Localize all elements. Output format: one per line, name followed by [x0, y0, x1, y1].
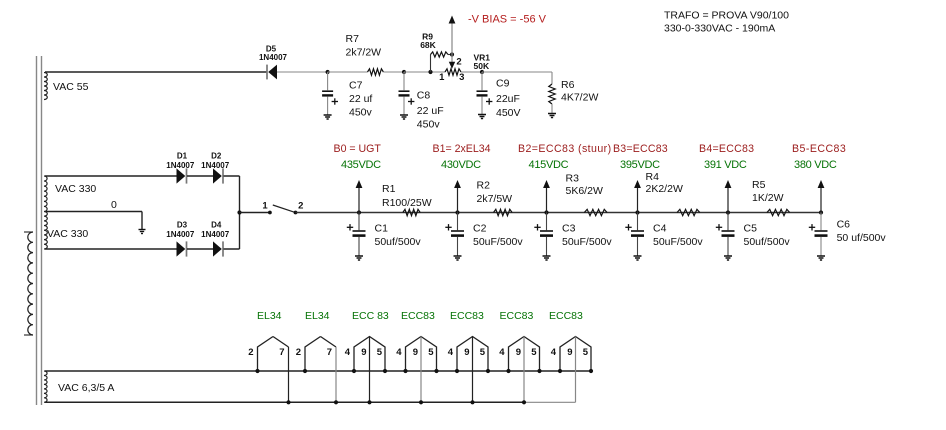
label R5 — [752, 179, 784, 204]
resistor R3 — [584, 209, 607, 215]
capacitor C1 — [347, 213, 366, 257]
label 1N4007 (D5) — [259, 53, 288, 62]
pin 2 label (VR1) — [456, 57, 461, 68]
label ECC83 (V6) — [500, 310, 534, 322]
svg-text:50uF/500v: 50uF/500v — [473, 236, 523, 248]
svg-text:R6: R6 — [561, 79, 575, 91]
diode D5 — [267, 65, 277, 80]
svg-text:50uF/500v: 50uF/500v — [562, 236, 612, 248]
label B1 (red) — [433, 143, 491, 155]
svg-text:C4: C4 — [653, 223, 667, 235]
svg-text:4: 4 — [551, 347, 557, 358]
svg-text:C7: C7 — [349, 80, 363, 92]
svg-text:50uF/500v: 50uF/500v — [653, 236, 703, 248]
label -V BIAS = -56 V — [468, 14, 547, 26]
capacitor C5 — [716, 213, 735, 257]
winding VAC 55 — [44, 73, 47, 100]
tube heater V4 ECC83 — [403, 337, 438, 405]
label C5 values — [744, 223, 791, 249]
label D4 — [211, 221, 222, 230]
svg-text:1K/2W: 1K/2W — [752, 192, 784, 204]
potentiometer VR1 body — [445, 69, 461, 75]
svg-text:2: 2 — [248, 347, 253, 358]
svg-text:D3: D3 — [177, 221, 188, 230]
wire D4 to bus — [224, 248, 240, 250]
svg-text:5: 5 — [428, 347, 434, 358]
svg-text:9: 9 — [361, 347, 366, 358]
svg-text:1: 1 — [439, 72, 445, 83]
svg-text:415VDC: 415VDC — [529, 159, 569, 171]
label B3 (red) — [613, 143, 668, 155]
label VAC 6,3/5 A — [58, 382, 114, 394]
note TRAFO — [664, 10, 789, 35]
label B5 voltage (green) — [794, 159, 837, 171]
svg-text:1N4007: 1N4007 — [201, 161, 230, 170]
svg-text:9: 9 — [516, 347, 521, 358]
svg-text:380 VDC: 380 VDC — [794, 159, 837, 171]
wire C7 to C8 — [328, 71, 368, 73]
resistor R4 — [677, 209, 700, 215]
tube heater V7 ECC83 — [558, 337, 593, 403]
svg-text:B2=ECC83 (stuur): B2=ECC83 (stuur) — [518, 143, 612, 155]
svg-text:450v: 450v — [349, 107, 373, 119]
svg-text:9: 9 — [413, 347, 418, 358]
svg-text:2: 2 — [296, 347, 301, 358]
svg-text:EL34: EL34 — [305, 310, 330, 322]
pin 4 label (V3) — [345, 347, 351, 358]
label R6 — [561, 79, 598, 104]
diode D3 — [177, 241, 187, 256]
transformer core — [37, 56, 42, 405]
wire D2 to bus — [224, 175, 240, 177]
wire bus to switch — [240, 212, 270, 214]
label ECC 83 (V3) — [352, 310, 389, 322]
label C1 values — [375, 223, 422, 249]
svg-text:5: 5 — [583, 347, 589, 358]
svg-text:R3: R3 — [566, 173, 580, 185]
svg-text:R7: R7 — [346, 33, 360, 45]
label C9 values — [496, 78, 521, 119]
label B5 (red) — [792, 143, 846, 155]
svg-text:1N4007: 1N4007 — [201, 230, 230, 239]
svg-text:330-0-330VAC - 190mA: 330-0-330VAC - 190mA — [664, 23, 775, 35]
label R2 — [477, 179, 513, 205]
node C9 junction — [480, 70, 484, 74]
svg-text:5K6/2W: 5K6/2W — [566, 185, 603, 197]
pin 5 label (V7) — [583, 347, 589, 358]
svg-text:50 uf/500v: 50 uf/500v — [837, 232, 887, 244]
svg-text:D1: D1 — [177, 152, 188, 161]
svg-text:1: 1 — [262, 201, 268, 212]
label 1N4007 (D1) — [166, 161, 195, 170]
svg-text:VAC 330: VAC 330 — [55, 183, 96, 195]
wire R7 to C8 node — [383, 71, 404, 73]
label 1N4007 (D4) — [201, 230, 230, 239]
svg-text:R100/25W: R100/25W — [382, 197, 432, 209]
svg-text:2k7/2W: 2k7/2W — [346, 47, 382, 59]
svg-text:ECC83: ECC83 — [549, 310, 583, 322]
node B4 — [726, 210, 730, 214]
pin 3 label (VR1) — [459, 72, 464, 83]
svg-text:-V BIAS = -56 V: -V BIAS = -56 V — [468, 14, 547, 26]
label 0 (center tap) — [111, 199, 117, 211]
svg-text:4: 4 — [396, 347, 402, 358]
capacitor C3 — [534, 213, 553, 257]
svg-text:C3: C3 — [562, 223, 576, 235]
wire heater bottom rail — [45, 401, 524, 403]
capacitor C8 — [399, 72, 415, 115]
node R9 riser junction — [428, 70, 432, 74]
tube heater V6 ECC83 — [506, 337, 541, 405]
pin 2 label (switch) — [298, 201, 303, 212]
resistor R1 — [403, 209, 420, 215]
svg-text:50K: 50K — [474, 61, 490, 71]
pin 4 label (V4) — [396, 347, 402, 358]
switch S1 — [268, 205, 297, 214]
wire VR1 to C9 node — [461, 71, 482, 73]
svg-text:450v: 450v — [417, 119, 441, 131]
resistor R5 — [767, 209, 790, 215]
node B1 — [455, 210, 459, 214]
ground (C5) — [724, 256, 732, 260]
node B3 — [635, 210, 639, 214]
svg-text:R5: R5 — [752, 179, 766, 191]
label 1N4007 (D3) — [166, 230, 195, 239]
svg-text:22 uF: 22 uF — [417, 105, 444, 117]
ground (C3) — [543, 256, 551, 260]
svg-text:5: 5 — [531, 347, 537, 358]
svg-text:0: 0 — [111, 199, 117, 211]
node B2 — [544, 210, 548, 214]
label C3 values — [562, 223, 612, 249]
svg-text:2K2/2W: 2K2/2W — [646, 183, 683, 195]
label EL34 (V2) — [305, 310, 330, 322]
winding VAC 330 upper — [44, 176, 47, 211]
label VAC 55 — [53, 81, 89, 93]
svg-text:1N4007: 1N4007 — [259, 53, 288, 62]
svg-text:VAC 330: VAC 330 — [47, 228, 88, 240]
svg-text:B0 = UGT: B0 = UGT — [334, 143, 382, 155]
label ECC83 (V7) — [549, 310, 583, 322]
arrow B3 output — [634, 180, 641, 213]
wire C8 to R9 riser node — [404, 71, 445, 73]
winding VAC 6,3/5 A — [44, 371, 47, 402]
pin 5 label (V4) — [428, 347, 434, 358]
svg-text:C5: C5 — [744, 223, 758, 235]
arrow B1 output — [454, 180, 461, 213]
pin 9 label (V6) — [516, 347, 521, 358]
wire heater top rail — [45, 370, 591, 372]
svg-text:4K7/2W: 4K7/2W — [561, 92, 598, 104]
svg-text:D4: D4 — [211, 221, 222, 230]
arrow B5 output — [818, 180, 825, 213]
wire D1 to D2 — [187, 175, 213, 177]
svg-text:ECC83: ECC83 — [401, 310, 435, 322]
svg-text:C8: C8 — [417, 89, 431, 101]
diode D1 — [177, 168, 187, 183]
svg-text:TRAFO = PROVA V90/100: TRAFO = PROVA V90/100 — [664, 10, 789, 22]
tube heater V5 ECC83 — [455, 337, 490, 405]
wire VAC55 to D5 — [45, 71, 267, 73]
tube heater V3 ECC83 — [352, 337, 387, 405]
svg-text:7: 7 — [327, 347, 332, 358]
pin 5 label (V5) — [480, 347, 486, 358]
svg-text:VAC 55: VAC 55 — [53, 81, 89, 93]
arrow B2 output — [543, 180, 550, 213]
pin 7 label (V1) — [279, 347, 284, 358]
svg-text:435VDC: 435VDC — [341, 159, 381, 171]
svg-text:C9: C9 — [496, 78, 510, 90]
svg-text:ECC83: ECC83 — [450, 310, 484, 322]
pin 9 label (V3) — [361, 347, 366, 358]
ground (C4) — [634, 256, 642, 260]
label EL34 (V1) — [257, 310, 282, 322]
svg-text:2: 2 — [456, 57, 461, 68]
resistor R2 — [494, 209, 513, 215]
node B5 — [819, 210, 823, 214]
label D5 — [266, 45, 277, 54]
ground (C7) — [324, 115, 332, 119]
label C2 values — [473, 223, 523, 249]
svg-text:R1: R1 — [382, 183, 396, 195]
capacitor C7 — [322, 72, 338, 115]
svg-text:C2: C2 — [473, 223, 487, 235]
label B2 voltage (green) — [529, 159, 569, 171]
ground (C6) — [817, 256, 825, 260]
pin 5 label (V6) — [531, 347, 537, 358]
transformer primary winding — [24, 232, 33, 335]
label R4 — [646, 171, 683, 195]
svg-text:450V: 450V — [496, 107, 521, 119]
pin 9 label (V5) — [464, 347, 469, 358]
wire VAC330 lower to bridge — [45, 248, 177, 250]
ground (C2) — [454, 256, 462, 260]
pin 2 label (V1) — [248, 347, 253, 358]
label C4 values — [653, 223, 703, 249]
svg-text:391 VDC: 391 VDC — [704, 159, 747, 171]
svg-text:EL34: EL34 — [257, 310, 282, 322]
arrow B0 output — [356, 180, 363, 213]
label D1 — [177, 152, 188, 161]
ground (C9) — [478, 115, 486, 119]
resistor R6 — [549, 84, 555, 114]
svg-text:R4: R4 — [646, 171, 660, 183]
svg-text:4: 4 — [448, 347, 454, 358]
svg-text:430VDC: 430VDC — [441, 159, 481, 171]
label R3 — [566, 173, 603, 198]
svg-text:ECC 83: ECC 83 — [352, 310, 389, 322]
svg-text:395VDC: 395VDC — [620, 159, 660, 171]
wire B+ rail — [296, 212, 822, 214]
pin 4 label (V7) — [551, 347, 557, 358]
svg-text:2: 2 — [298, 201, 303, 212]
label B2 (red) — [518, 143, 612, 155]
wire VAC330 upper to bridge — [45, 175, 177, 177]
wire D3 to D4 — [187, 248, 213, 250]
label R1 — [382, 183, 432, 209]
label C8 values — [417, 89, 444, 130]
tube heater V1 EL34 — [255, 337, 290, 405]
svg-text:ECC83: ECC83 — [500, 310, 534, 322]
pin 9 label (V4) — [413, 347, 418, 358]
svg-text:B4=ECC83: B4=ECC83 — [699, 143, 754, 155]
node bus junction — [237, 210, 241, 214]
wire -V BIAS wiper — [451, 22, 453, 62]
wire center tap — [45, 212, 142, 230]
svg-text:1N4007: 1N4007 — [166, 161, 195, 170]
arrow -V BIAS output — [449, 16, 456, 24]
label R9 — [420, 32, 436, 51]
pin 4 label (V5) — [448, 347, 454, 358]
svg-text:4: 4 — [345, 347, 351, 358]
wire C9 to R6 — [482, 72, 552, 84]
pin 1 label (switch) — [262, 201, 268, 212]
svg-text:C6: C6 — [837, 219, 851, 231]
svg-text:50uf/500v: 50uf/500v — [375, 236, 422, 248]
wire heater bottom rail gray segment — [524, 401, 576, 403]
svg-text:VAC 6,3/5 A: VAC 6,3/5 A — [58, 382, 114, 394]
ground (R6) — [548, 114, 556, 118]
label D3 — [177, 221, 188, 230]
svg-text:3: 3 — [459, 72, 464, 83]
arrow B4 output — [725, 180, 732, 213]
node C8 junction — [402, 70, 406, 74]
diode D2 — [213, 168, 223, 183]
tube heater V2 EL34 — [303, 337, 338, 405]
label B4 (red) — [699, 143, 754, 155]
svg-text:9: 9 — [464, 347, 469, 358]
label D2 — [211, 152, 222, 161]
svg-text:B5-ECC83: B5-ECC83 — [792, 143, 846, 155]
svg-text:1N4007: 1N4007 — [166, 230, 195, 239]
label VR1 50K — [474, 53, 491, 72]
pin 1 label (VR1) — [439, 72, 445, 83]
wire rectifier bus — [239, 176, 241, 249]
svg-text:2k7/5W: 2k7/5W — [477, 193, 513, 205]
svg-text:9: 9 — [567, 347, 572, 358]
label B0 voltage (green) — [341, 159, 381, 171]
resistor R9 with riser — [431, 52, 453, 72]
ground (C1) — [355, 256, 363, 260]
svg-text:B1= 2xEL34: B1= 2xEL34 — [433, 143, 491, 155]
winding VAC 330 lower — [44, 212, 47, 250]
label B1 voltage (green) — [441, 159, 481, 171]
capacitor C9 — [477, 72, 493, 115]
label VAC 330 lower — [47, 228, 88, 240]
pin 7 label (V2) — [327, 347, 332, 358]
label R7 — [346, 33, 382, 59]
svg-text:68K: 68K — [420, 40, 436, 50]
pin 9 label (V7) — [567, 347, 572, 358]
svg-text:C1: C1 — [375, 223, 389, 235]
svg-text:4: 4 — [499, 347, 505, 358]
node wiper-R9 junction — [450, 52, 454, 56]
svg-text:5: 5 — [377, 347, 383, 358]
svg-text:D2: D2 — [211, 152, 222, 161]
svg-text:5: 5 — [480, 347, 486, 358]
svg-text:50uf/500v: 50uf/500v — [744, 236, 791, 248]
svg-text:7: 7 — [279, 347, 284, 358]
svg-text:22uF: 22uF — [496, 93, 520, 105]
pin 5 label (V3) — [377, 347, 383, 358]
label VAC 330 upper — [55, 183, 96, 195]
svg-text:22 uf: 22 uf — [349, 93, 372, 105]
resistor R7 — [368, 69, 384, 75]
label 1N4007 (D2) — [201, 161, 230, 170]
node B0 — [357, 210, 361, 214]
label B3 voltage (green) — [620, 159, 660, 171]
ground (C8) — [400, 115, 408, 119]
label C6 values — [837, 219, 887, 245]
diode D4 — [213, 241, 223, 256]
pin 2 label (V2) — [296, 347, 301, 358]
label B0 (red) — [334, 143, 382, 155]
label C7 values — [349, 80, 373, 119]
ground (center tap) — [139, 230, 146, 234]
wire D5 to C7 node — [277, 71, 328, 73]
svg-text:B3=ECC83: B3=ECC83 — [613, 143, 668, 155]
label B4 voltage (green) — [704, 159, 747, 171]
label ECC83 (V4) — [401, 310, 435, 322]
potentiometer VR1 wiper arrow — [449, 62, 455, 69]
capacitor C2 — [445, 213, 464, 257]
svg-text:R2: R2 — [477, 179, 491, 191]
pin 4 label (V6) — [499, 347, 505, 358]
node C7 junction — [326, 70, 330, 74]
label ECC83 (V5) — [450, 310, 484, 322]
capacitor C4 — [625, 213, 644, 257]
capacitor C6 — [809, 213, 828, 257]
